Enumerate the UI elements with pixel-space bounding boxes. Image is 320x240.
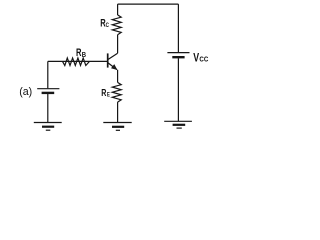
battery V1 (left source): [37, 89, 59, 93]
svg-text:B: B: [82, 51, 87, 59]
resistor RB: [63, 58, 90, 66]
ground (right, below VCC): [164, 121, 192, 128]
svg-text:CC: CC: [199, 56, 208, 63]
label RE: [101, 87, 110, 99]
wire collector vertical: [117, 35, 119, 54]
resistor RE: [112, 82, 121, 102]
wire battery V1 to ground: [47, 94, 49, 122]
wire RC top stub: [117, 4, 119, 15]
resistor RC: [112, 15, 121, 35]
svg-text:E: E: [107, 92, 110, 99]
ground (middle, below RE): [103, 123, 131, 131]
transistor Q1: [108, 53, 118, 69]
svg-text:R: R: [76, 47, 82, 59]
wire emitter vertical: [117, 70, 119, 83]
wire VCC top: [177, 4, 179, 52]
label RB: [76, 47, 86, 59]
wire RE to ground: [117, 102, 119, 122]
wire VCC to ground: [177, 58, 179, 121]
label VCC: [193, 52, 208, 64]
label (a): [19, 86, 32, 98]
ground (left, below V1): [34, 123, 62, 131]
svg-text:V: V: [193, 52, 199, 64]
svg-text:R: R: [101, 87, 107, 99]
wire base: [48, 61, 107, 88]
label RC: [100, 17, 109, 29]
wire top rail: [118, 3, 179, 5]
battery VCC: [167, 53, 189, 58]
svg-text:C: C: [106, 22, 109, 29]
svg-text:(a): (a): [19, 86, 32, 98]
